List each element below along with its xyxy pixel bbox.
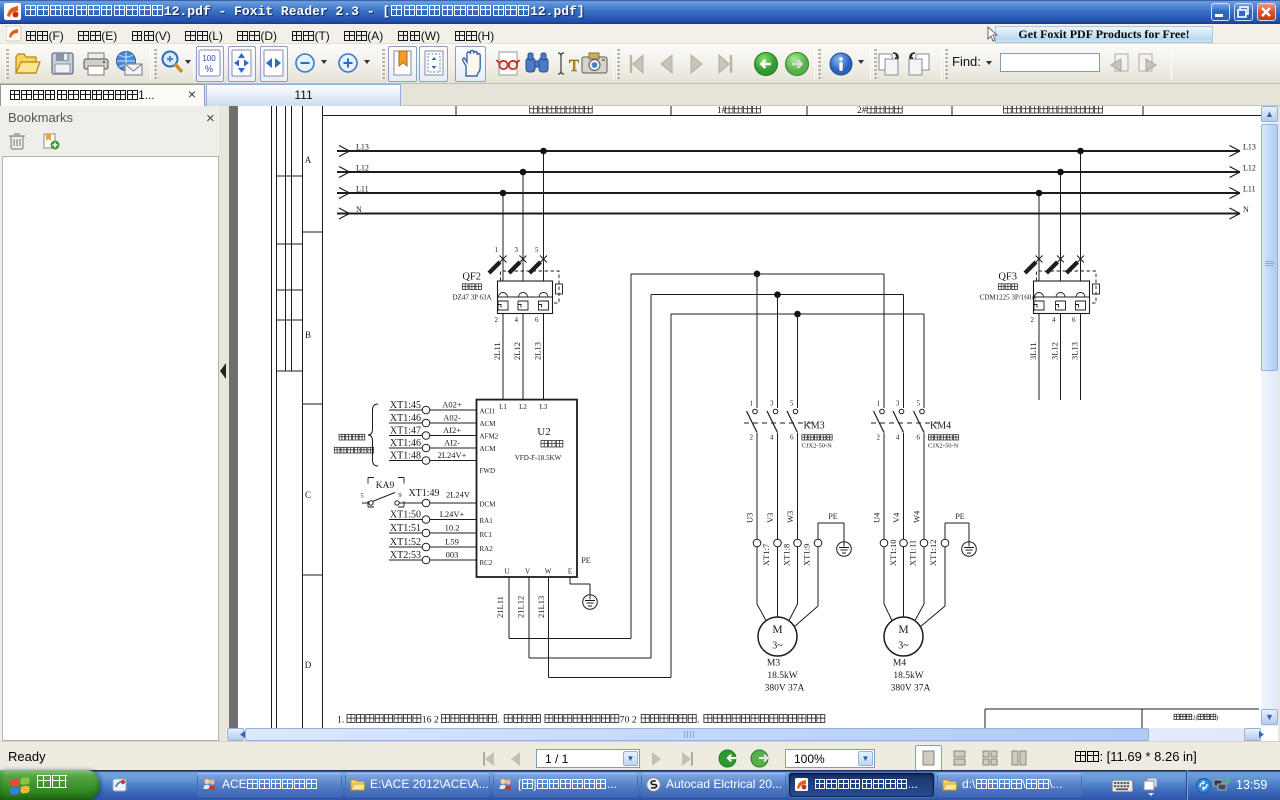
svg-text:2L13: 2L13: [533, 342, 543, 360]
svg-text:.: .: [697, 715, 699, 726]
svg-text:QF2: QF2: [462, 272, 481, 283]
svg-text:T: T: [569, 56, 579, 75]
svg-text:18.5kW: 18.5kW: [893, 671, 923, 681]
svg-text:2#: 2#: [857, 106, 867, 116]
svg-text:XT1:8: XT1:8: [782, 544, 792, 566]
svg-text:XT1:49: XT1:49: [408, 488, 439, 499]
svg-text:1: 1: [877, 400, 881, 408]
svg-text:21L12: 21L12: [516, 596, 526, 618]
svg-text:XT2:53: XT2:53: [390, 550, 421, 561]
svg-text:PE: PE: [828, 512, 837, 521]
svg-text:5: 5: [790, 400, 794, 408]
svg-text:2L12: 2L12: [512, 342, 522, 360]
svg-text:%: %: [205, 64, 213, 74]
svg-text:2: 2: [1031, 316, 1035, 324]
svg-text:16 2: 16 2: [422, 715, 439, 726]
svg-text:1: 1: [495, 246, 499, 254]
svg-text:4: 4: [770, 434, 774, 442]
svg-text:380V 37A: 380V 37A: [891, 684, 931, 694]
svg-text:RA1: RA1: [480, 517, 494, 525]
svg-text:L11: L11: [356, 185, 369, 194]
svg-text:L13: L13: [356, 143, 369, 152]
svg-text:3~: 3~: [772, 641, 783, 652]
svg-text:XT1:46: XT1:46: [390, 413, 421, 424]
svg-text:2L24V: 2L24V: [446, 490, 471, 500]
svg-text:XT1:9: XT1:9: [802, 544, 812, 566]
svg-text:PE: PE: [581, 556, 590, 565]
svg-text:XT1:52: XT1:52: [390, 537, 421, 548]
svg-text:4: 4: [1052, 316, 1056, 324]
svg-text:L12: L12: [356, 164, 369, 173]
svg-text:U2: U2: [537, 426, 550, 438]
svg-text:RC1: RC1: [480, 531, 493, 539]
svg-text:21L13: 21L13: [536, 596, 546, 618]
svg-text:): ): [1216, 715, 1218, 722]
svg-text:10.2: 10.2: [445, 523, 460, 533]
svg-text:U3: U3: [745, 513, 755, 523]
svg-text:FWD: FWD: [480, 467, 496, 475]
svg-text:4: 4: [896, 434, 900, 442]
svg-text:XT1:50: XT1:50: [390, 510, 421, 521]
svg-text:M3: M3: [767, 659, 780, 669]
svg-text:N: N: [1243, 205, 1249, 214]
svg-text:W4: W4: [912, 510, 922, 523]
svg-text:AFM2: AFM2: [480, 433, 499, 441]
svg-text:6: 6: [917, 434, 921, 442]
svg-text:003: 003: [446, 550, 459, 560]
svg-text:XT1:45: XT1:45: [390, 400, 421, 411]
svg-text:U4: U4: [872, 512, 882, 523]
svg-text:M: M: [898, 624, 908, 636]
svg-text:CJX2-50-N: CJX2-50-N: [802, 443, 833, 450]
svg-text:L12: L12: [1243, 164, 1256, 173]
svg-text:KM4: KM4: [930, 421, 951, 432]
svg-text:AI2-: AI2-: [444, 438, 460, 448]
svg-text:3~: 3~: [898, 641, 909, 652]
svg-text:L1: L1: [499, 403, 507, 411]
svg-text:M4: M4: [893, 659, 906, 669]
svg-text:100: 100: [202, 54, 216, 63]
svg-text:2L11: 2L11: [492, 342, 502, 360]
svg-text:2L24V+: 2L24V+: [438, 450, 467, 460]
svg-text:4: 4: [515, 316, 519, 324]
svg-text:L59: L59: [445, 537, 459, 547]
svg-text:E: E: [568, 568, 572, 576]
svg-text:XT1:47: XT1:47: [390, 426, 421, 437]
svg-text:L13: L13: [1243, 143, 1256, 152]
svg-text:AI2+: AI2+: [443, 425, 461, 435]
svg-text:1: 1: [750, 400, 754, 408]
svg-text:3: 3: [770, 400, 774, 408]
svg-text:2: 2: [877, 434, 881, 442]
svg-text:380V 37A: 380V 37A: [765, 684, 805, 694]
svg-text:D: D: [305, 660, 312, 670]
svg-text:3L11: 3L11: [1028, 342, 1038, 360]
svg-text:CDM1225 3P/160A: CDM1225 3P/160A: [980, 294, 1037, 302]
svg-text:XT1:48: XT1:48: [390, 451, 421, 462]
svg-text:70 2: 70 2: [620, 715, 637, 726]
svg-text:XT1:46: XT1:46: [390, 438, 421, 449]
svg-text:.: .: [497, 715, 499, 726]
svg-text:5: 5: [535, 246, 539, 254]
svg-text:5: 5: [360, 493, 363, 500]
svg-text:ACI1: ACI1: [480, 408, 496, 416]
svg-text:CJX2-50-N: CJX2-50-N: [928, 443, 959, 450]
svg-text:5: 5: [917, 400, 921, 408]
svg-text:DZ47 3P 63A: DZ47 3P 63A: [452, 294, 491, 302]
svg-text:1.: 1.: [337, 715, 344, 726]
svg-text:XT1:11: XT1:11: [908, 540, 918, 566]
svg-text:21L11: 21L11: [495, 596, 505, 618]
svg-text:C: C: [305, 490, 311, 500]
svg-text:V3: V3: [765, 513, 775, 523]
svg-text:2(: 2(: [1192, 715, 1197, 722]
svg-text:L11: L11: [1243, 185, 1256, 194]
svg-text:KA9: KA9: [376, 481, 395, 491]
svg-text:XT1:10: XT1:10: [888, 540, 898, 566]
svg-text:KM3: KM3: [804, 421, 825, 432]
svg-text:A: A: [305, 155, 312, 165]
svg-text:3L13: 3L13: [1070, 342, 1080, 360]
svg-text:9: 9: [398, 492, 401, 499]
svg-text:ACM: ACM: [480, 445, 497, 453]
svg-text:VFD-F-18.5KW: VFD-F-18.5KW: [515, 454, 562, 462]
svg-text:L3: L3: [540, 403, 548, 411]
svg-text:XT1:12: XT1:12: [928, 540, 938, 566]
svg-text:U: U: [504, 568, 509, 576]
svg-text:XT1:7: XT1:7: [761, 544, 771, 566]
svg-text:RA2: RA2: [480, 545, 494, 553]
svg-text:6: 6: [1072, 316, 1076, 324]
svg-text:3L12: 3L12: [1050, 342, 1060, 360]
svg-text:2: 2: [750, 434, 754, 442]
svg-text:W3: W3: [785, 511, 795, 523]
svg-text:2: 2: [495, 316, 499, 324]
svg-text:RC2: RC2: [480, 559, 493, 567]
svg-text:3: 3: [896, 400, 900, 408]
svg-text:ACM: ACM: [480, 420, 497, 428]
svg-text:18.5kW: 18.5kW: [767, 671, 797, 681]
svg-text:XT1:51: XT1:51: [390, 523, 421, 534]
svg-text:QF3: QF3: [998, 272, 1017, 283]
svg-text:V4: V4: [891, 512, 901, 523]
svg-text:PE: PE: [955, 512, 964, 521]
svg-text:A02-: A02-: [443, 413, 461, 423]
svg-text:DCM: DCM: [480, 501, 497, 509]
svg-text:N: N: [356, 205, 362, 214]
svg-text:L24V+: L24V+: [440, 509, 465, 519]
svg-text:W: W: [545, 568, 552, 576]
svg-text:B: B: [305, 330, 311, 340]
svg-text:6: 6: [535, 316, 539, 324]
svg-text:3: 3: [515, 246, 519, 254]
svg-text:L2: L2: [519, 403, 527, 411]
svg-text:6: 6: [790, 434, 794, 442]
svg-text:M: M: [772, 624, 782, 636]
svg-text:V: V: [525, 568, 530, 576]
svg-text:A02+: A02+: [442, 400, 462, 410]
